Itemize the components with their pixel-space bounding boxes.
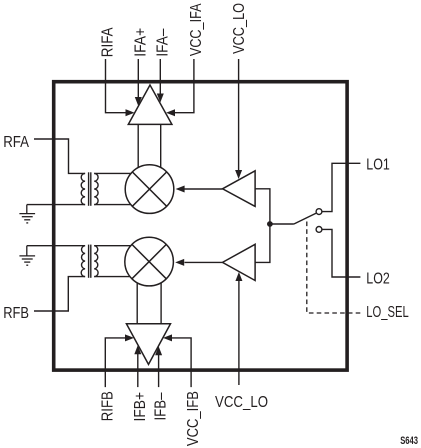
wire mixer B to IFB amp (left) <box>136 283 138 324</box>
svg-text:LO1: LO1 <box>366 157 390 174</box>
arrowhead RIFA into IFA amp <box>126 109 135 116</box>
arrowhead VCC_LO into LO amp U4 <box>235 272 242 281</box>
svg-text:LO2: LO2 <box>366 270 390 287</box>
op-amp U3 LO buffer A (triangle left) <box>223 171 256 207</box>
wire IFA amp to mixer A (right) <box>160 124 162 167</box>
svg-text:RFB: RFB <box>3 305 29 322</box>
op-amp U4 LO buffer B (triangle left) <box>223 244 256 280</box>
op-amp IFA output amplifier (triangle up) <box>128 85 172 124</box>
svg-text:IFA–: IFA– <box>154 29 171 57</box>
mixer A X diagonal 2 <box>132 172 166 206</box>
wire VCC_IFA pin <box>174 59 194 113</box>
mixer A X diagonal 1 <box>132 172 166 206</box>
svg-text:VCC_IFA: VCC_IFA <box>188 3 205 56</box>
wire VCC_IFB pin <box>172 338 192 387</box>
svg-text:RIFB: RIFB <box>99 391 116 421</box>
wire RFB input <box>34 277 85 311</box>
wire IFB+ pin <box>137 354 139 388</box>
arrowhead IFA- <box>157 94 164 103</box>
svg-text:VCC_IFB: VCC_IFB <box>185 391 202 446</box>
wire LO buffer A to mixer A <box>185 188 223 190</box>
wire LO1 <box>322 163 361 211</box>
wire mixer B to IFB amp (right) <box>160 283 162 324</box>
wire RFA input <box>34 139 85 173</box>
arrowhead VCC_IFA into IFA amp <box>166 109 175 116</box>
mixer B circle <box>125 237 174 286</box>
wire LO buffer B to mixer B <box>185 261 223 263</box>
wire IFA+ pin <box>137 59 139 98</box>
wire T2 secondary bottom to mixer B <box>94 276 130 278</box>
svg-text:S643: S643 <box>400 435 418 447</box>
wire VCC_LO bottom pin <box>238 281 240 385</box>
svg-text:RFA: RFA <box>3 134 29 151</box>
mixer B X diagonal 1 <box>132 244 166 278</box>
wire VCC_LO top pin <box>238 59 240 171</box>
svg-text:VCC_LO: VCC_LO <box>215 394 268 411</box>
wire IFB- pin <box>158 355 160 388</box>
ground B <box>19 246 35 266</box>
mixer B X diagonal 2 <box>132 244 166 278</box>
transformer T1 secondary coil <box>94 173 98 204</box>
wire T1 primary bottom to ground <box>27 204 85 206</box>
svg-text:LO_SEL: LO_SEL <box>366 304 409 321</box>
transformer T2 secondary coil <box>94 246 98 277</box>
arrowhead IFA+ <box>135 97 142 106</box>
wire LO buffer B output to switch bus <box>255 224 270 262</box>
svg-text:IFB–: IFB– <box>153 392 170 420</box>
transformer T1 core <box>88 172 90 206</box>
svg-text:IFB+: IFB+ <box>132 392 149 422</box>
wire RIFA pin <box>106 59 127 113</box>
outer block border <box>54 82 347 370</box>
wire T1 secondary top to mixer A <box>94 172 131 174</box>
wire T2 secondary top to mixer B <box>94 245 131 247</box>
arrowhead IFB- <box>155 346 162 355</box>
wire RIFB pin <box>105 338 126 387</box>
wire T2 primary top to ground <box>27 245 85 247</box>
transformer T1 primary coil <box>81 173 85 204</box>
arrowhead IFB+ <box>134 345 141 354</box>
wire junction to switch pole <box>270 223 294 225</box>
arrowhead RIFB into IFB amp <box>125 334 134 341</box>
switch contact LO2 <box>316 227 322 233</box>
arrowhead LO into mixer B <box>175 259 184 266</box>
wire IFA amp to mixer A (left) <box>137 124 139 167</box>
svg-text:IFA+: IFA+ <box>132 28 149 57</box>
svg-text:VCC_LO: VCC_LO <box>231 3 248 54</box>
switch contact LO1 <box>316 209 322 215</box>
op-amp IFB output amplifier (triangle down) <box>126 324 170 365</box>
arrowhead VCC_IFB into IFB amp <box>163 334 172 341</box>
wire IFA- pin <box>159 59 161 94</box>
wire LO_SEL control (dashed) <box>307 222 361 314</box>
switch lever <box>294 213 316 224</box>
arrowhead VCC_LO into LO amp U3 <box>235 170 242 179</box>
wire T1 secondary bottom to mixer A <box>94 204 131 206</box>
arrowhead LO into mixer A <box>176 186 185 193</box>
transformer T2 core <box>88 245 90 278</box>
wire LO buffer A output to switch bus <box>255 189 270 224</box>
ground A <box>19 205 35 223</box>
mixer A circle <box>125 165 174 214</box>
node switch junction dot <box>267 221 273 227</box>
svg-text:RIFA: RIFA <box>100 27 117 57</box>
wire LO2 <box>322 229 361 277</box>
transformer T2 primary coil <box>81 246 85 277</box>
